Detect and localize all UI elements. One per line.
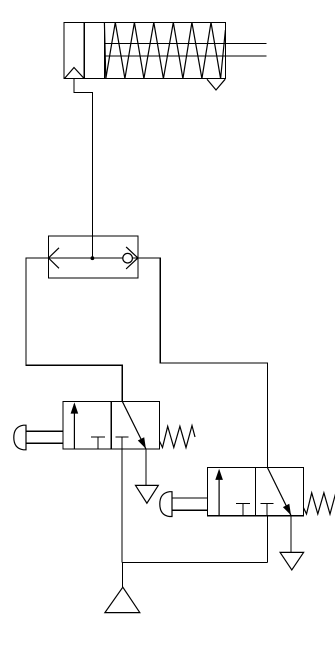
shuttle valve ball: [123, 253, 133, 263]
valve V1 exhaust triangle: [136, 485, 159, 503]
valve V2 return spring: [303, 492, 335, 514]
valve V2 exhaust path arrow: [267, 468, 291, 516]
valve V2 exhaust triangle: [280, 552, 304, 570]
cylinder return spring: [104, 22, 225, 78]
wire shuttle right port to valve V2: [138, 258, 268, 468]
valve V1 push button: [14, 425, 63, 450]
cylinder body: [64, 22, 226, 78]
valve V2 exhaust line: [290, 516, 292, 553]
valve V1 exhaust line: [145, 449, 147, 485]
cylinder vent notch bottom: [207, 79, 225, 90]
valve V1 body: [63, 401, 159, 449]
valve V1 return spring: [159, 426, 195, 448]
wire shuttle left port to valve V1: [26, 258, 122, 401]
supply bus wire: [122, 562, 267, 564]
valve V2 push button: [160, 492, 208, 517]
wire valve V1 supply to bus: [121, 449, 123, 562]
valve V2 flow arrow: [215, 469, 223, 516]
shuttle valve right seat: [126, 247, 138, 269]
compressed air supply triangle: [105, 587, 140, 612]
valve V1 flow arrow: [71, 402, 79, 449]
valve V1 blocked port T1: [91, 437, 105, 449]
wire cylinder port to shuttle valve: [74, 79, 92, 258]
valve V2 blocked port T2: [260, 504, 273, 516]
valve V2 blocked port T1: [236, 504, 250, 516]
cylinder vent notch left: [65, 68, 84, 79]
valve V1 blocked port T2: [115, 437, 128, 449]
piston rod: [104, 44, 266, 57]
wire valve V2 supply to bus: [266, 516, 268, 563]
valve V2 body: [207, 468, 303, 516]
shuttle valve body: [49, 236, 138, 278]
wire bus to supply source: [122, 563, 124, 588]
valve V1 exhaust path arrow: [122, 401, 146, 449]
shuttle valve left seat: [49, 248, 60, 268]
node junction dot: [91, 256, 95, 260]
